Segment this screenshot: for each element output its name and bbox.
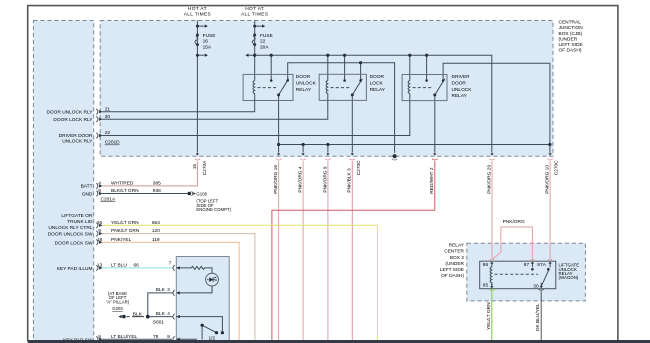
wire PNK/ORG 10 to relay pin 87A [549, 161, 551, 259]
wire RED/WHT 2 with jog [272, 161, 435, 340]
wire pin 9 drop [327, 145, 329, 153]
module box: keyless entry / driver door module (left, dashed) [33, 21, 93, 343]
svg-text:DRIVER DOOR: DRIVER DOOR [59, 133, 93, 139]
svg-text:BOX (CJB): BOX (CJB) [559, 31, 583, 37]
pin 87 cup [530, 259, 536, 261]
arrowheads liftgate relay pins [490, 262, 493, 264]
connector pin 2 arrow [433, 153, 436, 155]
wire R2 coil top [327, 55, 329, 80]
LED triangle [209, 277, 213, 282]
connector pin 26 arrow [99, 224, 102, 227]
svg-text:OF DASH): OF DASH) [559, 48, 582, 54]
connector pin 20 arrow [99, 118, 102, 121]
connector pin 8c arrow [176, 338, 179, 341]
pin 87 arrow [531, 264, 533, 268]
wire PNK/LT GRN 120 [102, 234, 255, 340]
relay contact dots R3 [425, 79, 428, 82]
svg-text:FUSE: FUSE [203, 33, 216, 39]
svg-text:15: 15 [192, 164, 198, 170]
svg-text:22: 22 [260, 39, 266, 45]
svg-text:FUSE: FUSE [260, 33, 273, 39]
relay center box 2 (dashed) [467, 243, 586, 301]
connector pin 18 arrow [99, 241, 102, 244]
svg-text:KEY PAD ILLUM: KEY PAD ILLUM [57, 266, 93, 272]
svg-text:RELAY: RELAY [296, 87, 312, 93]
junction dots top area [196, 25, 199, 28]
dashed link R2 [331, 87, 351, 89]
relay contact dots R2 [343, 79, 346, 82]
svg-text:LEFT SIDE: LEFT SIDE [559, 42, 583, 48]
svg-text:ENGINE COMPT): ENGINE COMPT) [196, 207, 231, 212]
wire PNK/BLK 3 [351, 161, 353, 340]
dashed link R3 [413, 87, 433, 89]
keypad switch arm drop [201, 325, 203, 339]
svg-text:(UNDER: (UNDER [559, 36, 578, 42]
wire pin 21 to R1 coil [102, 101, 255, 112]
wire branch arrow lower F16 [197, 54, 204, 56]
svg-text:C270C: C270C [356, 160, 362, 175]
svg-text:85: 85 [483, 283, 489, 289]
coil liftgate relay [490, 267, 492, 286]
svg-text:G203: G203 [112, 306, 123, 311]
connector pin 4 cup [300, 159, 306, 160]
connector pin 8 arrow [99, 192, 102, 195]
wire DK BLU/YEL below liftgate relay [540, 291, 542, 340]
svg-text:TRUNK LID: TRUNK LID [67, 219, 93, 225]
svg-text:PNK/BLK 3: PNK/BLK 3 [347, 168, 353, 193]
svg-text:UNLOCK RLY: UNLOCK RLY [62, 138, 93, 144]
svg-text:PNK/ORG 10: PNK/ORG 10 [545, 165, 551, 194]
svg-text:C270C: C270C [554, 160, 560, 175]
svg-text:RELAY: RELAY [449, 243, 465, 249]
connector pin 9 arrow [326, 153, 329, 155]
wire PNK/YEL 119 [102, 242, 239, 340]
svg-text:BLK: BLK [156, 287, 166, 293]
svg-text:UNLOCK: UNLOCK [452, 87, 473, 93]
svg-text:DOOR UNLOCK SW: DOOR UNLOCK SW [48, 232, 93, 238]
connector pin 8 arc [96, 191, 98, 197]
liftgate relay top pin cups [489, 259, 553, 290]
svg-text:3: 3 [167, 287, 170, 293]
bus NC contacts right segment [443, 63, 550, 153]
svg-text:CENTER: CENTER [444, 249, 464, 255]
svg-text:UNLOCK RLY CTRL: UNLOCK RLY CTRL [48, 225, 92, 231]
wire LT BLU/YEL 78 [102, 338, 172, 340]
connector pin 16 arrow [277, 153, 280, 155]
svg-text:BLK: BLK [156, 311, 166, 317]
connector pin 4 arc [96, 183, 98, 189]
wire YEL/LT GRN 664 [102, 225, 377, 340]
svg-text:BOX 2: BOX 2 [450, 255, 464, 261]
svg-text:87: 87 [524, 262, 530, 268]
armature R3 [435, 79, 445, 95]
svg-text:DRIVER: DRIVER [452, 74, 471, 80]
relay box R3 driver door unlock relay [402, 75, 447, 101]
wire pin 3 BLK to splice [148, 293, 173, 317]
connector pin 4 arrow [99, 184, 102, 187]
wire gnd BLK/LT GRN 938 [102, 193, 187, 195]
wire key pad illum inside run + resistor [176, 266, 212, 273]
dot C270C feed on dashed line [393, 154, 397, 158]
svg-text:7: 7 [169, 261, 172, 267]
connector pin 4b arrow [176, 315, 179, 318]
LED arrows [214, 277, 218, 281]
connector pin 8b arrow [99, 338, 102, 341]
bottom dark bar [28, 340, 650, 343]
svg-text:LIFTGATE OR: LIFTGATE OR [61, 213, 93, 219]
svg-text:86: 86 [483, 262, 489, 268]
ground G108 dot [188, 192, 192, 196]
svg-text:DOOR: DOOR [452, 80, 467, 86]
svg-text:DOOR UNLOCK RLY: DOOR UNLOCK RLY [46, 109, 93, 115]
relay contact dots R1 [270, 79, 273, 82]
wire R2 NO contact [344, 55, 346, 80]
svg-text:JUNCTION: JUNCTION [559, 25, 584, 31]
dots on output bus [277, 143, 280, 146]
keypad box edge connectors (arc + arrow pointing left) [173, 265, 180, 342]
pin 87A cup [547, 259, 553, 261]
module edge connectors (arc + arrow) [96, 109, 102, 342]
svg-text:ALL TIMES: ALL TIMES [241, 11, 268, 17]
svg-text:HOT AT: HOT AT [188, 6, 207, 12]
svg-text:DK BLU/YEL: DK BLU/YEL [535, 303, 541, 331]
connector pin 15 cup [195, 159, 201, 160]
LED symbol [207, 277, 215, 282]
coil R3 [408, 81, 410, 101]
svg-text:30: 30 [533, 283, 539, 289]
connector pin 26 arc [96, 223, 98, 229]
pin 85 arrow [491, 283, 493, 287]
connector pin 7 arc [173, 265, 175, 271]
svg-text:15A: 15A [203, 44, 212, 50]
pin 86 arrow [491, 264, 493, 268]
svg-text:21: 21 [105, 106, 111, 112]
svg-text:"A" PILLAR): "A" PILLAR) [106, 299, 130, 304]
dashed link R1 [258, 87, 277, 89]
wire LED to pin 3 [176, 286, 212, 293]
connector pin 21 arc [96, 109, 98, 115]
rotated wire labels below CJB [192, 160, 560, 331]
connector pin 8c arc [173, 336, 175, 342]
connector pin 22 arc [96, 133, 98, 139]
svg-text:OF DASH): OF DASH) [441, 273, 464, 279]
connector pin 22 arrow [99, 134, 102, 137]
svg-text:YEL/LT GRN: YEL/LT GRN [486, 302, 492, 330]
connector pin 3 cup [350, 159, 356, 160]
pin 30 arrow [540, 283, 542, 287]
svg-text:PNK/ORG: PNK/ORG [503, 219, 525, 225]
bus fused power B+ [248, 55, 492, 152]
svg-text:PNK/ORG 9: PNK/ORG 9 [322, 166, 328, 192]
fuse F16 element [195, 35, 198, 45]
svg-text:PNK/ORG 29: PNK/ORG 29 [486, 165, 492, 194]
svg-text:20A: 20A [260, 44, 269, 50]
wire YEL/LT GRN below liftgate relay [491, 291, 493, 340]
arrowhead bus left end [245, 54, 248, 57]
connector pin 3 arrow [176, 291, 179, 294]
wire R3 NO contact [426, 55, 428, 80]
connector pin 4 arrow [302, 153, 305, 155]
wire fuse 16 feed [196, 21, 198, 153]
wire R3 armature to pin 2 [434, 95, 436, 153]
svg-text:PNK/ORG 4: PNK/ORG 4 [298, 166, 304, 192]
wire pin 4 BLK from splice into box [150, 317, 223, 332]
wire PNK/ORG 16 [278, 161, 280, 340]
coil R2 [326, 81, 328, 101]
svg-text:LOCK: LOCK [370, 80, 384, 86]
svg-text:PNK/ORG 16: PNK/ORG 16 [273, 165, 279, 194]
dot on NC bus at R2 [359, 61, 362, 64]
connector C270C feed cup [392, 159, 398, 160]
connector pin 29 arrow [490, 153, 493, 155]
wire fuse 22 feed [254, 21, 256, 56]
svg-text:(UNDER: (UNDER [445, 261, 464, 267]
connector pin 9 arrow [99, 232, 102, 235]
svg-text:HOT AT: HOT AT [245, 6, 264, 12]
coil R1 [253, 81, 255, 101]
wire PNK/ORG jumper 86 to 87 [492, 227, 532, 259]
pin 85 cup [489, 289, 495, 290]
armature liftgate relay [541, 269, 549, 287]
svg-text:87A: 87A [537, 262, 546, 268]
connector pin 13 arrow [99, 266, 102, 269]
svg-text:20: 20 [105, 114, 111, 120]
connector pin 10 arrow [549, 153, 552, 155]
bus relay outputs to pins [279, 144, 550, 146]
LED circle [206, 273, 219, 286]
svg-text:DOOR LOCK SW: DOOR LOCK SW [55, 240, 93, 246]
svg-text:RED/WHT 2: RED/WHT 2 [429, 167, 435, 194]
wire branch arrow top F22 [255, 25, 262, 27]
pin 86 cup [489, 259, 495, 261]
ground G203 symbol arrow+dot [119, 315, 122, 318]
connector pin 8b arc [96, 336, 98, 342]
connector pin 15 arrow [196, 153, 199, 155]
wire pin 20 to R2 coil [102, 100, 328, 119]
armature R2 [352, 79, 362, 95]
relay box R2 door lock relay [319, 74, 366, 100]
connector pin 29 cup [489, 159, 495, 160]
svg-text:DOOR LOCK RLY: DOOR LOCK RLY [53, 117, 93, 123]
svg-text:C270A: C270A [202, 160, 208, 175]
svg-text:GND: GND [82, 191, 93, 197]
wire R1 NO contact [270, 55, 272, 80]
svg-text:LEFT SIDE: LEFT SIDE [440, 267, 464, 273]
wire pin 22 to R3 coil [102, 101, 410, 136]
svg-text:G108: G108 [196, 192, 207, 197]
svg-text:BLK: BLK [133, 311, 143, 317]
connector pin 2 cup [432, 159, 438, 160]
bottom module box (keypad illumination) [176, 257, 229, 343]
connector pin 18 arc [96, 239, 98, 245]
central junction box CJB (dashed) [100, 21, 553, 157]
svg-text:(WAGON): (WAGON) [559, 275, 579, 280]
svg-text:CENTRAL: CENTRAL [559, 20, 582, 26]
connector pin 13 arc [96, 265, 98, 271]
connector pin 3 arrow [351, 153, 354, 155]
connector pin 9 arc [96, 231, 98, 237]
wire branch arrow top F16 [197, 25, 204, 27]
wire PNK/ORG 4 [302, 161, 304, 340]
armature R1 [279, 79, 289, 95]
relay box R1 door unlock relay [243, 74, 293, 100]
keypad switch dots [201, 324, 204, 327]
connector pin 20 arc [96, 116, 98, 122]
wire WHT/RED 385 batt feed [102, 161, 197, 186]
connector pin 7 arrow [176, 266, 179, 269]
svg-text:22: 22 [105, 130, 111, 136]
svg-text:RELAY: RELAY [370, 87, 386, 93]
fuse F22 element [252, 35, 255, 45]
svg-text:S601: S601 [153, 320, 165, 326]
svg-text:DOOR: DOOR [296, 74, 311, 80]
wire PNK/ORG 29 to relay pin 86 [491, 161, 493, 259]
wire R1 coil top [254, 55, 256, 80]
wire pin 4 drop [302, 145, 304, 153]
liftgate unlock relay box [480, 261, 556, 289]
arrowheads branch circuits [205, 24, 208, 27]
wire R2 armature to pin 3 [351, 95, 353, 153]
svg-text:BATT: BATT [81, 184, 93, 190]
svg-text:UNLOCK: UNLOCK [296, 80, 317, 86]
contact dots liftgate relay [531, 268, 534, 271]
connector pin 10 cup [547, 159, 553, 160]
connector pin 4b arc [173, 314, 175, 320]
splice S601 dot [146, 315, 150, 319]
ground G203 dashed wire to splice [127, 316, 144, 318]
svg-text:4: 4 [167, 311, 170, 317]
wire R1 armature to pin 16 [278, 95, 280, 153]
wire LT BLU 66 [102, 267, 172, 269]
wire PNK/ORG 9 [327, 161, 329, 340]
keypad switch armature [202, 325, 216, 333]
svg-text:C201A: C201A [101, 196, 116, 202]
dots on B+ bus [253, 54, 256, 57]
svg-text:RELAY: RELAY [452, 93, 468, 99]
connector pin 9 cup [325, 159, 331, 160]
connector pin 21 arrow [99, 110, 102, 113]
svg-text:16: 16 [203, 39, 209, 45]
wire R2 NC contact [360, 63, 362, 81]
bus NC contacts left segment [288, 63, 395, 153]
connector pin 3 arc [173, 290, 175, 296]
pin 30 cup [538, 289, 544, 290]
connector pin 16 cup [276, 159, 282, 160]
wire R3 coil top [409, 55, 411, 80]
ground G108 mini connector [191, 191, 192, 195]
CJB bottom connectors: arrowhead above dashed line + cup below [195, 153, 553, 160]
pin 87A arrow [549, 264, 551, 268]
dashed link liftgate relay [495, 273, 538, 275]
wire lt blu/yel inside stub [176, 338, 197, 340]
svg-text:C201D: C201D [105, 140, 120, 146]
svg-text:DOOR: DOOR [370, 74, 385, 80]
svg-text:ALL TIMES: ALL TIMES [184, 11, 211, 17]
